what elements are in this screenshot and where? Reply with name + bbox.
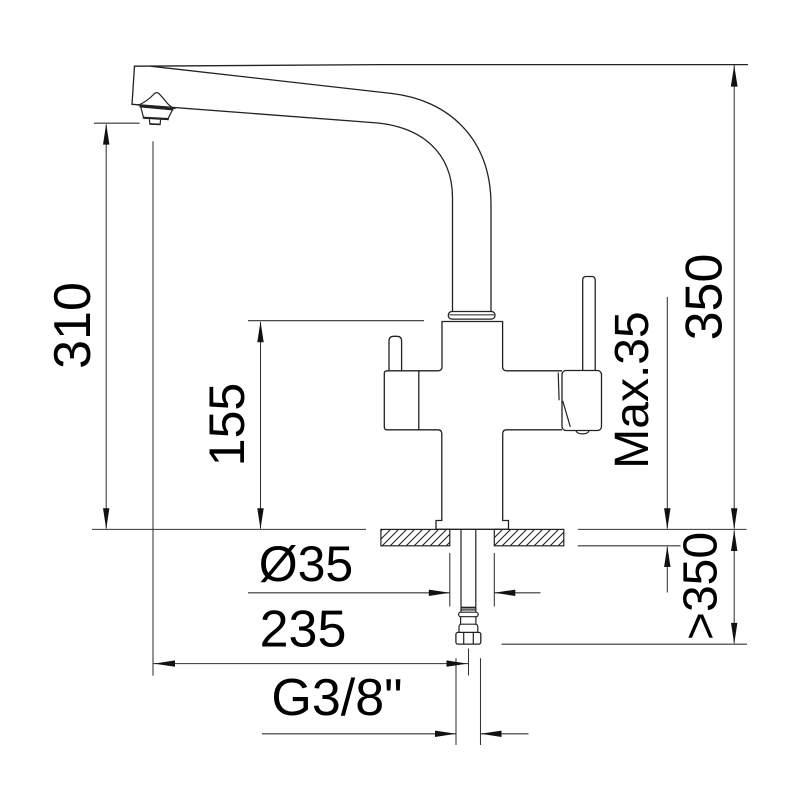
svg-text:350: 350 (676, 254, 734, 341)
310 dimension line (105, 125, 107, 529)
aerator body (140, 106, 174, 124)
spout top back edge + top extension line (135, 65, 748, 67)
G3/8 dimension line + underline (262, 733, 529, 735)
235 centre tick (468, 649, 470, 676)
>350 arrows (731, 530, 737, 551)
aerator nub (149, 119, 160, 124)
spout bottom edge with inner bend into vertical pipe (132, 104, 453, 312)
lower tube (461, 617, 476, 625)
310 arrows (103, 124, 109, 145)
155 arrows (257, 321, 263, 342)
155 dimension line (260, 322, 262, 529)
spout front top edge with outer bend into vertical pipe (151, 66, 492, 312)
counter top ext line right (578, 528, 747, 530)
ext line hose end (502, 643, 747, 645)
Ø35 arrows (429, 590, 450, 596)
Max.35 dimension lines (666, 297, 668, 593)
svg-text:310: 310 (44, 282, 102, 369)
350 arrows (731, 65, 738, 86)
o-ring pill (459, 612, 479, 617)
right handle base (562, 371, 602, 431)
235 arrows (154, 660, 175, 666)
svg-text:Ø35: Ø35 (259, 536, 354, 592)
left small knob handle (389, 336, 402, 371)
hex nut (456, 632, 481, 644)
faucet cross body outline (384, 322, 562, 530)
counter top ext line left (92, 528, 366, 530)
counter slab right (hatched) (494, 529, 564, 545)
nub under handle base (576, 431, 589, 434)
235 dimension line (153, 663, 469, 665)
svg-text:Max.35: Max.35 (606, 311, 659, 468)
left arm cap line (418, 371, 420, 430)
G3/8 arrows (435, 731, 456, 737)
ext line 155 top (248, 320, 424, 322)
350 dimension line (733, 65, 735, 529)
Ø35 dimension line + underline (248, 592, 541, 594)
threaded shank (461, 530, 476, 612)
spout left end cap (132, 66, 135, 104)
handle joint lines (558, 373, 570, 427)
svg-text:235: 235 (260, 601, 347, 659)
svg-text:155: 155 (199, 383, 255, 466)
spout tip vertical extension line (152, 141, 154, 675)
Max.35 arrows (664, 508, 670, 529)
G3/8 ext lines (456, 658, 481, 745)
counter bottom ext line right (578, 545, 681, 547)
aerator dome (138, 93, 176, 109)
counter slab left (hatched) (381, 529, 450, 545)
svg-text:>350: >350 (675, 532, 728, 640)
side lever rod (583, 277, 596, 372)
>350 dimension line (733, 530, 735, 643)
Ø35 ext lines (450, 553, 495, 607)
collar ring below pipe (448, 312, 495, 320)
ext line aerator bottom (310 top) (94, 122, 140, 124)
svg-text:G3/8": G3/8" (271, 669, 402, 727)
collar above nut (459, 624, 478, 632)
